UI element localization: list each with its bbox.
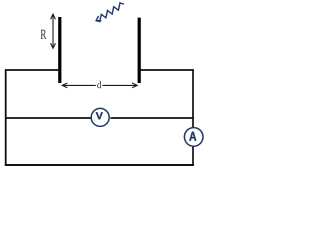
wire: voltmeter row right segment	[110, 117, 193, 119]
dimension arrow R (vertical double-headed)	[51, 14, 56, 48]
wire: left vertical rail	[5, 69, 7, 166]
label R	[41, 30, 47, 39]
dimension arrow d (horizontal double-headed)	[62, 83, 137, 88]
wire: right vertical rail lower segment (below ammeter)	[192, 146, 194, 165]
ammeter A	[184, 128, 203, 147]
wire: top-right horizontal from right plate to right rail	[141, 69, 194, 71]
wire: top-left horizontal from left rail to left plate	[6, 69, 59, 71]
photon squiggle arrow (incident light)	[96, 3, 123, 22]
wire: right vertical rail upper segment	[192, 69, 194, 127]
electrode plate left	[58, 17, 61, 83]
voltmeter V	[91, 108, 109, 126]
label d	[97, 81, 101, 88]
wire: voltmeter row left segment	[5, 117, 92, 119]
wire: bottom horizontal	[5, 164, 194, 166]
electrode plate right	[138, 18, 141, 83]
